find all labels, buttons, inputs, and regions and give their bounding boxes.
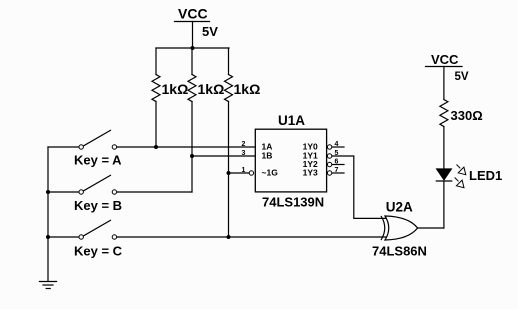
svg-text:~1G: ~1G (262, 168, 279, 178)
svg-text:1: 1 (242, 167, 246, 174)
svg-text:1kΩ: 1kΩ (198, 81, 225, 97)
svg-text:1B: 1B (262, 151, 273, 161)
svg-text:U1A: U1A (278, 113, 305, 128)
svg-text:Key = B: Key = B (74, 198, 122, 213)
svg-text:3: 3 (242, 150, 246, 157)
svg-text:74LS139N: 74LS139N (262, 195, 324, 210)
svg-text:VCC: VCC (178, 5, 208, 21)
svg-text:5: 5 (335, 150, 339, 157)
svg-text:4: 4 (335, 141, 339, 148)
svg-text:2: 2 (242, 141, 246, 148)
svg-text:74LS86N: 74LS86N (372, 244, 427, 259)
svg-text:1Y3: 1Y3 (303, 168, 318, 178)
svg-text:1kΩ: 1kΩ (162, 81, 189, 97)
svg-text:5V: 5V (202, 24, 218, 39)
svg-text:Key = A: Key = A (74, 153, 122, 168)
svg-text:5V: 5V (455, 71, 469, 83)
svg-text:VCC: VCC (431, 52, 459, 67)
svg-text:U2A: U2A (386, 200, 413, 215)
svg-text:7: 7 (335, 167, 339, 174)
svg-text:1kΩ: 1kΩ (234, 81, 261, 97)
svg-text:330Ω: 330Ω (451, 108, 483, 123)
svg-text:6: 6 (335, 159, 339, 166)
svg-text:LED1: LED1 (469, 168, 502, 183)
svg-text:Key = C: Key = C (74, 244, 123, 259)
